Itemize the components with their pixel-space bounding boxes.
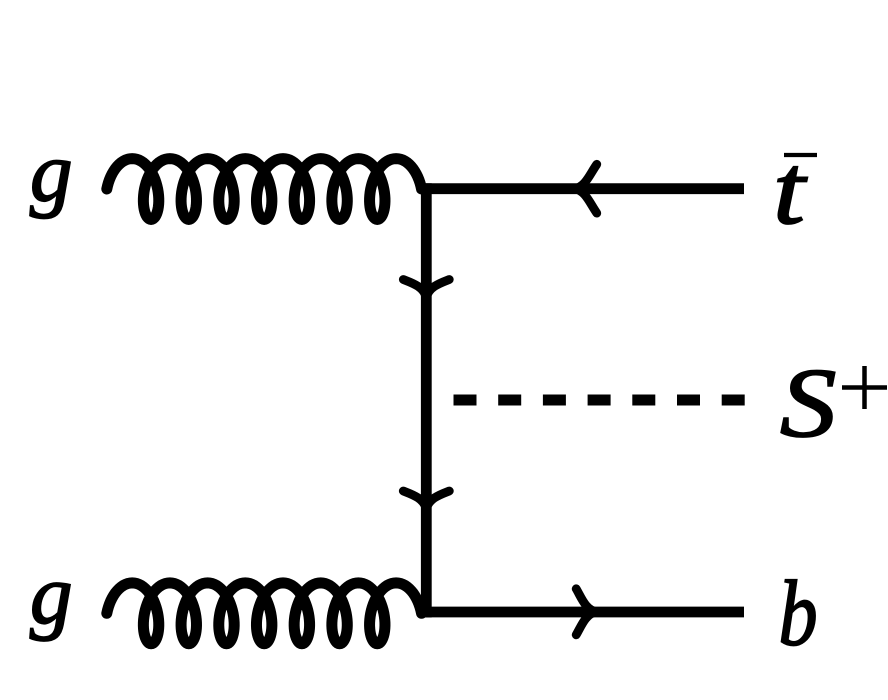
wire: anti-top line (top horizontal) (421, 183, 744, 194)
svg-text:b: b (779, 561, 818, 665)
arrow on internal line (upper, pointing down) (403, 280, 449, 299)
svg-text:g: g (30, 126, 73, 220)
overline bar of t (784, 153, 817, 157)
svg-text:t: t (773, 135, 808, 245)
superscript plus of S+ (842, 366, 887, 409)
gluon g (bottom incoming) (107, 583, 422, 644)
svg-text:g: g (30, 548, 73, 642)
wire: internal quark propagator (vertical) (421, 183, 432, 617)
arrow on bottom-quark line (pointing right) (576, 589, 596, 635)
svg-text:S: S (780, 347, 836, 457)
arrow on internal line (lower, pointing down) (403, 491, 449, 510)
arrow on anti-top line (pointing left) (575, 164, 597, 213)
wire: bottom-quark line (bottom horizontal) (421, 607, 744, 618)
scalar S+ dashed propagator (454, 395, 746, 406)
gluon g (top incoming) (107, 159, 422, 220)
